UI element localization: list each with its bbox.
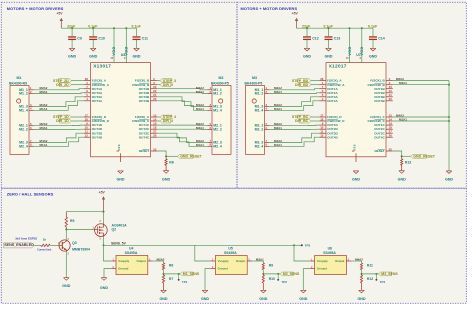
hierarchical label STEP_2D (53, 79, 84, 83)
U7 pin 1 CW/CCW_A (319, 81, 345, 87)
wire U4 ground to GND (104, 269, 111, 278)
svg-text:R13: R13 (405, 161, 411, 165)
hierarchical label DIR_BC (295, 119, 319, 123)
motor connector M1 BK4300-R9 (9, 76, 29, 154)
resistor R4 1k (41, 238, 50, 247)
wire M3 pin 1 to U7 (269, 86, 319, 90)
svg-text:C9: C9 (77, 37, 82, 41)
svg-text:0.1uF: 0.1uF (368, 25, 378, 29)
test point TP1 (178, 274, 188, 284)
svg-text:Output: Output (236, 259, 245, 263)
svg-text:GND: GND (369, 55, 377, 59)
ground under R7 (159, 290, 167, 301)
M2 pin 4 M1_4 (207, 107, 222, 113)
note current limit (37, 248, 51, 251)
wire U3 to M2 pin 6 (157, 126, 207, 130)
svg-text:M2_SENS: M2_SENS (283, 272, 300, 276)
svg-text:1k: 1k (43, 238, 47, 242)
svg-text:Q2: Q2 (112, 227, 117, 231)
wire M1 pin 7 to U3 (34, 133, 84, 143)
resistor R12 (360, 274, 373, 290)
U7 pin 10 OUT2D (319, 126, 338, 132)
svg-text:M1_4: M1_4 (255, 108, 264, 112)
U7 pin 5 OUT3A (319, 93, 338, 99)
vertical tie-down wire (448, 81, 450, 171)
M3 pin 7 M2_3 (255, 139, 270, 145)
svg-text:BK4300-P5: BK4300-P5 (211, 82, 229, 86)
svg-text:25: 25 (153, 147, 157, 151)
M2 pin 1 M1_1 (207, 86, 222, 92)
svg-text:DIR_2D: DIR_2D (56, 83, 69, 87)
wire M3 pin 6 to U7 (269, 126, 319, 130)
svg-text:R6: R6 (169, 263, 173, 267)
wire R5 top to +5V column (66, 211, 104, 213)
svg-text:M1A1: M1A1 (196, 143, 204, 147)
ground under Q3 (62, 278, 70, 288)
svg-text:M3A1: M3A1 (40, 126, 48, 130)
U7 pin 19 OUT1C (374, 122, 392, 128)
ground under U7 VSS (352, 171, 360, 182)
hierarchical label STEP_BD (292, 79, 319, 83)
U7 pin 4 OUT4A (319, 97, 338, 103)
U7 pin 27 OUT3C (374, 130, 392, 136)
wire RESET to pulldown (393, 151, 403, 157)
wire to GND_RESET label (166, 155, 177, 157)
U3 pin 26 OUT4C (139, 134, 157, 140)
U7 pin 21 OUT3B (374, 93, 392, 99)
svg-text:GND: GND (68, 55, 76, 59)
svg-text:M4A2: M4A2 (355, 257, 363, 261)
svg-text:OUT4C: OUT4C (139, 135, 150, 139)
svg-text:M1_2: M1_2 (255, 92, 264, 96)
ground under U5 (201, 290, 209, 301)
capacitor C9 22uF (67, 25, 82, 49)
svg-text:MOTORS + MOTOR DRIVERS: MOTORS + MOTOR DRIVERS (7, 6, 64, 11)
hierarchical label STEP_BC (292, 115, 319, 119)
wire rail to U6 Vsupply (294, 245, 310, 261)
hierarchical label DIR_BD (295, 83, 319, 87)
M2 pin 6 M2_2 (207, 126, 222, 132)
note 3v3 from ESP32 (15, 236, 37, 240)
U3 pin 4 OUT4A (84, 97, 103, 103)
resistor R6 (162, 263, 173, 275)
svg-text:Vsupply: Vsupply (317, 259, 328, 263)
svg-text:M2_2: M2_2 (213, 127, 222, 131)
wire Q2 drain to sensor rail (102, 236, 104, 246)
U7 pin 6 OUT2A (319, 89, 338, 95)
M1 pin 1 M1_1 (19, 86, 34, 92)
svg-text:GND: GND (201, 297, 209, 301)
svg-text:OUT4C: OUT4C (374, 135, 385, 139)
svg-text:TP2: TP2 (281, 280, 287, 284)
ground under U4 (100, 278, 108, 290)
svg-text:VSS: VSS (353, 144, 357, 151)
U3 VDD pin wires to +5V rail (110, 27, 128, 62)
sheet region MOTORS + MOTOR DRIVERS (right) (237, 2, 466, 188)
U3 pin 9 OUT1D (84, 122, 103, 128)
U3 pin 21 OUT3B (139, 93, 157, 99)
ground under R12 (357, 290, 365, 301)
svg-text:M3A1: M3A1 (196, 126, 204, 130)
svg-text:M3A1: M3A1 (274, 90, 282, 94)
M3 pin 5 M2_1 (255, 122, 270, 128)
wire SENS_ENABLED to R4 (34, 244, 41, 246)
svg-text:TP4: TP4 (380, 280, 386, 284)
wire M1 pin 3 to U3 (34, 97, 84, 107)
svg-text:X13017: X13017 (93, 64, 111, 69)
svg-text:GND: GND (445, 178, 453, 182)
Q3 collector wire (65, 228, 67, 239)
hierarchical label DIR_2D (56, 83, 84, 87)
wire M3 pin 3 to U7 (269, 97, 319, 107)
ground under U3 VSS (116, 171, 124, 182)
svg-text:M1A1: M1A1 (40, 107, 48, 111)
svg-text:R7: R7 (169, 277, 173, 281)
svg-text:DIR_1D: DIR_1D (56, 119, 69, 123)
power symbol +5V (right section) (292, 12, 299, 29)
capacitor C13 0.1uF (324, 25, 341, 49)
U3 pin 27 OUT3C (139, 130, 157, 136)
svg-text:Current limit: Current limit (37, 248, 51, 251)
U7 pin 20 OUT4B (374, 97, 392, 103)
svg-text:ZERO / HALL SENSORS: ZERO / HALL SENSORS (7, 192, 54, 197)
M1 pin 6 M2_2 (19, 126, 34, 132)
svg-text:C13: C13 (334, 37, 341, 41)
ground under R8 (162, 171, 170, 182)
U7 pin 18 OUT2C (374, 126, 392, 132)
M2 pin 7 M2_3 (207, 139, 222, 145)
svg-text:DIR_BC: DIR_BC (295, 119, 309, 123)
svg-text:C10: C10 (98, 37, 105, 41)
svg-text:M2_4: M2_4 (19, 144, 28, 148)
U5 hall sensor SS495A (211, 247, 252, 275)
resistor R13 (401, 156, 412, 170)
svg-text:M1A1: M1A1 (40, 143, 48, 147)
capacitor C11 0.1uF (132, 25, 149, 49)
svg-text:GND_RESET: GND_RESET (180, 155, 202, 159)
U3 pin 15 F(SCK)_C (135, 113, 157, 119)
svg-text:U3: U3 (121, 53, 126, 57)
U7 reference designator (356, 53, 361, 57)
wire U6 ground to GND (303, 269, 310, 291)
U7 pin 12 OUT4D (319, 134, 338, 140)
wire U3 to M2 pin 2 (157, 90, 207, 94)
svg-text:Ground: Ground (317, 267, 327, 271)
U3 reference designator (121, 53, 126, 57)
svg-text:25: 25 (389, 147, 393, 151)
svg-text:M3: M3 (252, 76, 257, 80)
svg-text:GND: GND (352, 178, 360, 182)
U3 pin 20 OUT4B (139, 97, 157, 103)
wire Q3 collector to Q2 gate (66, 229, 94, 231)
motor connector M2 BK4300-P5 (211, 76, 231, 154)
U3 pin 14 CW/CCW_C (132, 118, 157, 124)
U3 pin 25 RESET (139, 147, 157, 153)
wire CW/CCW_C to GND tie (393, 118, 450, 123)
+5V rail wire (right) (297, 27, 374, 29)
svg-text:M2_2: M2_2 (19, 127, 28, 131)
wire U3 to M2 pin 3 (157, 97, 207, 107)
svg-text:VSS: VSS (117, 144, 121, 151)
wire F(SCK)_C to GND tie (393, 114, 450, 119)
M2 pin 8 M2_4 (207, 143, 222, 149)
svg-text:GND: GND (162, 177, 170, 181)
svg-text:GND: GND (100, 286, 108, 290)
svg-text:M1_2: M1_2 (19, 92, 28, 96)
wire U6 output to divider (351, 257, 363, 263)
svg-text:GND: GND (116, 178, 124, 182)
svg-text:GND: GND (324, 55, 332, 59)
driver IC U7 X12017 (326, 63, 386, 157)
wire U5 ground to GND (205, 269, 211, 291)
M3 pin 1 M1_1 (255, 86, 270, 92)
sheet region ZERO / HALL SENSORS (bottom) (1, 188, 466, 303)
svg-text:0.1uF: 0.1uF (132, 25, 142, 29)
U7 pin 16 CW/CCW_D (319, 118, 345, 124)
M2 pin 5 M2_1 (207, 122, 222, 128)
U7 pin 23 OUT1B (374, 85, 392, 91)
svg-text:Ground: Ground (118, 267, 128, 271)
U7 pin 3 CW/CCW_B (368, 81, 393, 87)
svg-text:Vsupply: Vsupply (118, 259, 129, 263)
wire rail to U5 Vsupply (195, 245, 211, 261)
U7 pin 11 OUT3D (319, 130, 338, 136)
svg-text:M2_4: M2_4 (213, 144, 222, 148)
wire +5V to Q2 source (103, 212, 105, 224)
resistor R11 (360, 263, 373, 275)
svg-text:SS495A: SS495A (224, 251, 237, 255)
svg-text:M3A1: M3A1 (40, 90, 48, 94)
svg-text:GND: GND (299, 297, 307, 301)
power symbol +5V (left section) (56, 12, 63, 29)
hierarchical label M1_SENS (180, 272, 200, 276)
U7 pin 25 RESET (374, 147, 392, 153)
U7 pin 26 OUT4C (374, 134, 392, 140)
svg-text:OUT4D: OUT4D (92, 135, 103, 139)
svg-text:26: 26 (389, 134, 393, 138)
svg-text:BK4300-P5: BK4300-P5 (245, 82, 263, 86)
svg-text:GND_RESET: GND_RESET (413, 155, 435, 159)
hierarchical label STEP_4 (157, 115, 176, 119)
svg-text:GND: GND (89, 55, 97, 59)
svg-text:R8: R8 (169, 161, 173, 165)
U3 pin 18 OUT2C (139, 126, 157, 132)
svg-text:OUT4D: OUT4D (327, 135, 338, 139)
U3 pin 28 F(SCK)_A (84, 77, 107, 83)
wire CW/CCW_B to GND tie (393, 81, 450, 86)
svg-text:M1: M1 (17, 76, 22, 80)
M2 pin 3 M1_3 (207, 103, 222, 109)
transistor Q2 AO3401A p-mosfet (93, 221, 128, 240)
svg-text:GND: GND (62, 284, 70, 288)
ground under C9 (68, 48, 76, 58)
hierarchical label M3_SENS (379, 272, 399, 276)
wire to M1_SENS label (164, 273, 181, 275)
sheet region MOTORS + MOTOR DRIVERS (left) (1, 2, 237, 188)
U6 hall sensor SS495A (310, 247, 351, 275)
ground under U6 (299, 290, 307, 301)
wire M1 pin 5 to U3 (34, 122, 84, 126)
svg-text:Output: Output (335, 259, 344, 263)
svg-text:GND: GND (259, 297, 267, 301)
svg-text:20: 20 (153, 97, 157, 101)
wire to M2_SENS label (263, 273, 280, 275)
svg-text:R5: R5 (70, 219, 74, 223)
U3 pin 12 OUT4D (84, 134, 103, 140)
M3 pin 8 M2_4 (255, 143, 270, 149)
U3 pin 22 OUT2B (139, 89, 157, 95)
svg-text:R11: R11 (367, 263, 373, 267)
hierarchical label DIR_1D (56, 119, 84, 123)
svg-text:SS495A: SS495A (323, 251, 336, 255)
svg-text:M1A1: M1A1 (274, 107, 282, 111)
ground under C11 (132, 48, 140, 58)
U3 pin 6 OUT2A (84, 89, 103, 95)
svg-text:DIR_3: DIR_3 (163, 83, 173, 87)
M1 pin 5 M2_1 (19, 122, 34, 128)
hierarchical label GND_RESET (411, 154, 436, 158)
svg-text:M1A1: M1A1 (399, 118, 407, 122)
U7 pin 15 F(SCK)_C (370, 113, 392, 119)
svg-text:+5V: +5V (292, 12, 299, 16)
M3 pin 2 M1_2 (255, 90, 270, 96)
M2 pin 2 M1_2 (207, 90, 222, 96)
wire U5 output to divider (252, 257, 264, 263)
M1 pin 7 M2_3 (19, 139, 34, 145)
svg-text:Ground: Ground (218, 267, 228, 271)
power symbol +5V (sensors) (99, 190, 106, 211)
svg-text:M3A1: M3A1 (399, 81, 407, 85)
U3 pin 1 CW/CCW_A (84, 81, 110, 87)
svg-text:GND: GND (303, 55, 311, 59)
svg-text:C11: C11 (142, 37, 148, 41)
svg-text:M3A1: M3A1 (196, 90, 204, 94)
resistor R9 (262, 263, 273, 275)
wire U3 to M2 pin 4 (157, 101, 207, 111)
svg-text:3v3 from ESP32: 3v3 from ESP32 (15, 236, 37, 240)
capacitor C14 0.1uF (368, 25, 385, 49)
hierarchical label GND_RESET (177, 154, 202, 158)
ground under R10 (259, 290, 267, 301)
svg-text:+5V: +5V (99, 190, 106, 194)
wire U3 to M2 pin 8 (157, 137, 207, 147)
test point TP2 (277, 274, 287, 284)
svg-text:12: 12 (85, 134, 89, 138)
U3 pin 11 OUT3D (84, 130, 103, 136)
svg-text:U7: U7 (356, 53, 361, 57)
svg-text:GND: GND (159, 297, 167, 301)
wire M3 pin 8 to U7 (269, 137, 319, 147)
+5V rail wire (left) (61, 27, 136, 29)
U7 VDD pin wires to +5V rail (346, 27, 364, 62)
global label SENS_ENABLED (3, 243, 34, 248)
svg-text:M1A1: M1A1 (196, 107, 204, 111)
ground under R13 (398, 171, 406, 182)
svg-text:OUT4A: OUT4A (327, 99, 338, 103)
svg-text:VDD: VDD (112, 46, 116, 55)
test point TP4 (375, 274, 385, 284)
U3 pin 7 OUT1A (84, 85, 103, 91)
wire U3 to M2 pin 1 (157, 86, 207, 90)
svg-text:M1_4: M1_4 (213, 108, 222, 112)
test point TP3 (293, 244, 311, 248)
svg-text:M3A1: M3A1 (256, 257, 264, 261)
wire M1 pin 2 to U3 (34, 90, 84, 94)
U3 pin 19 OUT1C (139, 122, 157, 128)
ground under C13 (324, 48, 332, 58)
svg-text:C14: C14 (378, 37, 385, 41)
wire RESET to pulldown (157, 151, 167, 157)
ground under C14 (369, 48, 377, 58)
wire M1 pin 1 to U3 (34, 86, 84, 90)
M1 pin 2 M1_2 (19, 90, 34, 96)
resistor R10 (262, 274, 275, 290)
U7 pin 9 OUT1D (319, 122, 338, 128)
hierarchical label DIR_3 (157, 83, 173, 87)
U7 VSS pin to ground (352, 144, 357, 162)
ground under C12 (303, 48, 311, 58)
motor connector M3 BK4300-P5 (245, 76, 265, 154)
hierarchical label DIR_4 (157, 119, 173, 123)
svg-text:OUT4B: OUT4B (374, 99, 385, 103)
M3 pin 6 M2_2 (255, 126, 270, 132)
U3 pin 2 F(SCK)_B (135, 77, 157, 83)
svg-text:M3_SENS: M3_SENS (381, 272, 398, 276)
wire M3 pin 5 to U7 (269, 122, 319, 126)
svg-text:GND: GND (132, 55, 140, 59)
M3 pin 3 M1_3 (255, 103, 270, 109)
U4 hall sensor SS495A (111, 247, 152, 275)
svg-text:20: 20 (389, 97, 393, 101)
svg-text:C12: C12 (312, 37, 319, 41)
transistor Q3 MMBT3904 (58, 239, 90, 255)
U7 pin 14 CW/CCW_C (368, 118, 393, 124)
svg-text:Vsupply: Vsupply (218, 259, 229, 263)
svg-text:R10: R10 (269, 277, 275, 281)
svg-text:SENS_ENABLED: SENS_ENABLED (4, 243, 34, 247)
U7 pin 7 OUT1A (319, 85, 338, 91)
svg-text:BK4300-R9: BK4300-R9 (9, 82, 27, 86)
svg-text:Q3: Q3 (72, 241, 77, 245)
svg-text:M2: M2 (219, 76, 224, 80)
resistor R8 (165, 156, 174, 170)
wire to M3_SENS label (362, 273, 379, 275)
U7 pin 22 OUT2B (374, 89, 392, 95)
svg-text:M2_2: M2_2 (255, 127, 264, 131)
svg-text:R12: R12 (367, 277, 373, 281)
capacitor C12 22uF (302, 25, 319, 49)
U3 pin 16 CW/CCW_D (84, 118, 110, 124)
capacitor C10 0.1uF (88, 25, 105, 49)
U3 pin 5 OUT3A (84, 93, 103, 99)
svg-text:VDD: VDD (348, 46, 352, 55)
ground under C10 (89, 48, 97, 58)
U3 pin 17 F(SCK)_D (84, 113, 107, 119)
resistor R7 (162, 274, 173, 290)
svg-text:OUT4A: OUT4A (92, 99, 103, 103)
svg-text:DIR_4: DIR_4 (163, 119, 173, 123)
svg-text:MOTORS + MOTOR DRIVERS: MOTORS + MOTOR DRIVERS (241, 6, 298, 11)
wire to GND_RESET label (402, 155, 411, 157)
svg-text:M3A1: M3A1 (274, 126, 282, 130)
hierarchical label STEP_1D (53, 115, 84, 119)
svg-text:Output: Output (137, 259, 146, 263)
hierarchical label STEP_3 (157, 79, 176, 83)
M1 pin 3 M1_3 (19, 103, 34, 109)
M3 pin 4 M1_4 (255, 107, 270, 113)
U3 VSS pin to ground (116, 144, 121, 162)
sensor power rail SENS_5V (104, 241, 295, 245)
